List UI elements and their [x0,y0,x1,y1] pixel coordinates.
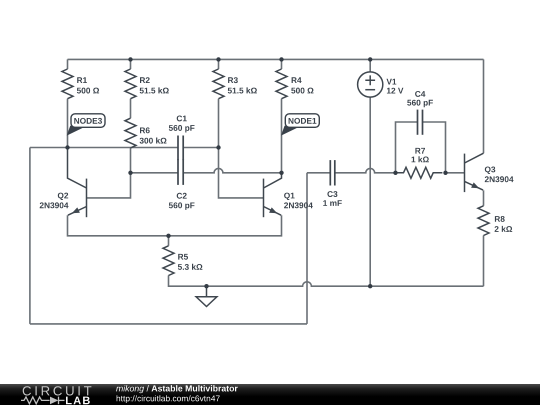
node dot R7 right [443,171,447,175]
resistor R5 [163,246,174,276]
resistor R2 [125,69,136,99]
transistor Q1 [264,173,282,217]
footer bar [0,384,540,405]
resistor R3 [213,69,224,99]
footer logo resistor-diode-LAB [21,397,65,405]
resistor R1 [62,69,73,99]
footer logo CIRCUIT [23,386,92,395]
node dot R3 bottom Q1 base [216,145,220,149]
wire top rail [68,58,484,60]
wire R1 to Q2 collector [67,59,69,147]
node dot R2 top [128,57,132,61]
resistor R7 (horizontal) [396,167,443,178]
capacitor C4 with loop wires [396,122,446,173]
wire bottom long [30,323,307,325]
wire V1 branch [369,59,371,286]
transistor Q3 [465,153,484,192]
node NODE3 flag [67,114,105,136]
wire C3 riser [306,173,308,324]
node dot Q1 collector [279,171,283,175]
resistor R8 [478,206,489,236]
node dot Q2 base C2 left [128,171,132,175]
capacitor C1 [178,136,183,161]
wire Q3 emitter to R8 [483,190,485,206]
wire R7 to Q3 base [446,172,465,174]
node dot R3 top [216,57,220,61]
wire R5 top tap [168,236,170,246]
ground [196,286,217,306]
wire R3 to Q1 base [219,59,264,198]
footer title text [116,385,238,393]
wire ground rail with hop over C3 riser [169,276,484,287]
node dot ground tap [204,284,208,288]
capacitor C2 [178,159,183,185]
wire C3 to R7 node with hop over V1 branch [307,168,396,172]
node dot V1 top [368,57,372,61]
wire R8 to ground rail [483,236,485,287]
wire R2-R6 chain to Q2 base [87,59,131,198]
node dot NODE3 junction [65,145,69,149]
transistor Q2 [68,148,87,218]
capacitor C3 [330,160,335,185]
wire top rail to Q3 collector [483,59,485,153]
wire emitter rail Q2-Q1 [68,215,282,236]
node NODE1 flag [281,114,319,136]
wire upper cross node3-C1-Q1base [30,147,219,149]
wire R4 to Q1 collector [281,59,283,172]
node dot R7 left [393,171,397,175]
wire lower cross Q2base-C2-Q1collector with hop [131,168,282,172]
node dot R5 top [166,234,170,238]
resistor R4 [276,69,287,99]
voltage source V1 [358,72,383,97]
node dot R4 top [279,57,283,61]
node dot V1 bottom [368,284,372,288]
wire left rail [29,148,31,324]
footer url text [117,395,220,403]
resistor R6 [125,118,136,148]
